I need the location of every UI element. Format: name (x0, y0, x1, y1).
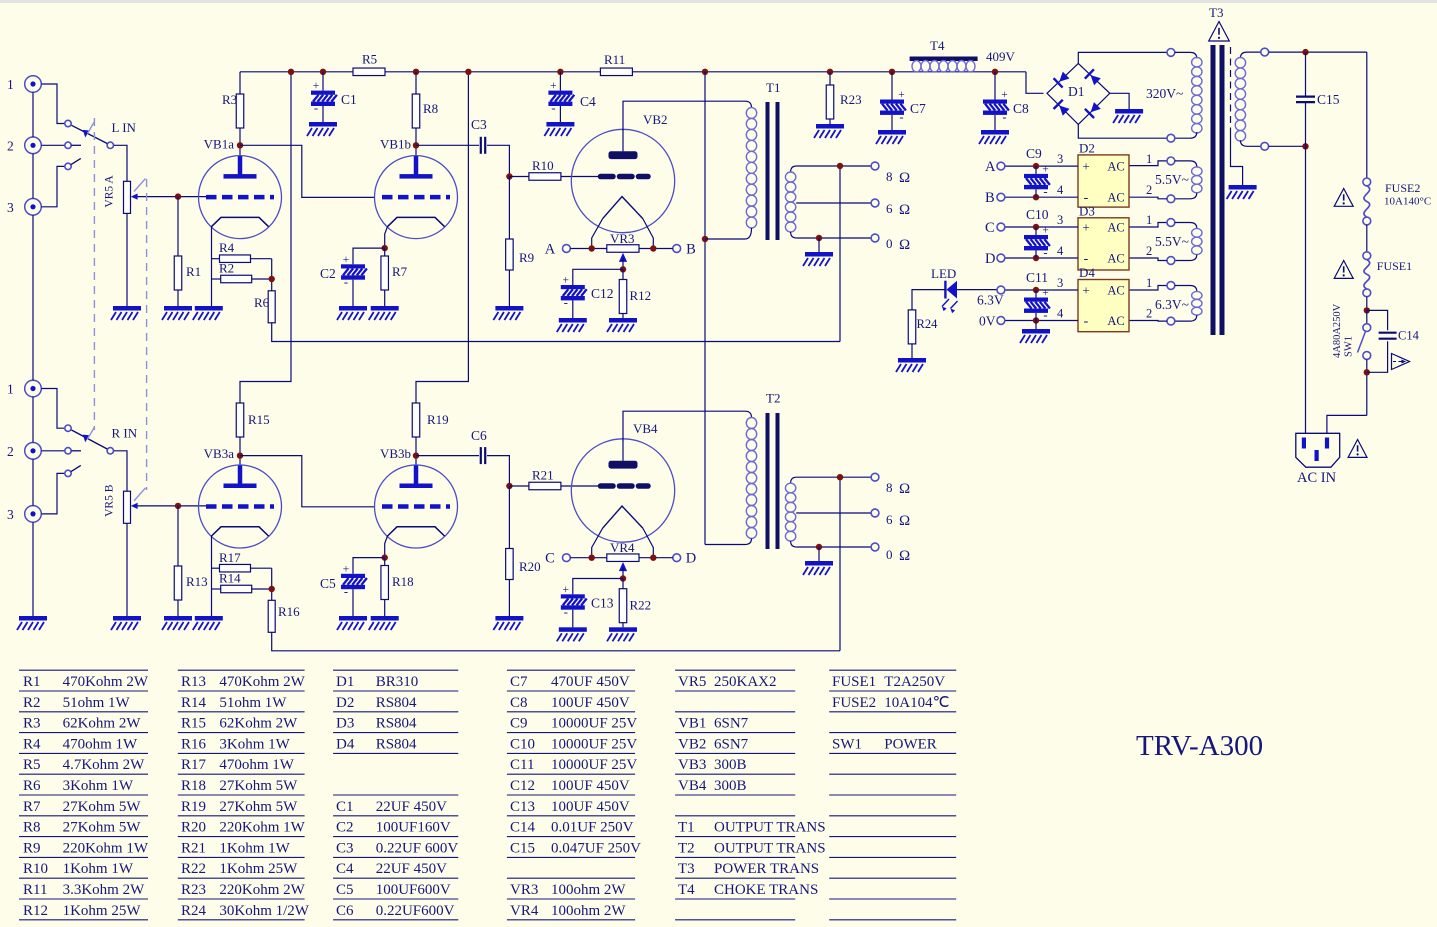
svg-text:C9: C9 (510, 716, 528, 732)
svg-text:10A104℃: 10A104℃ (884, 695, 949, 711)
svg-text:T3: T3 (1209, 5, 1223, 20)
svg-text:R11: R11 (23, 882, 47, 898)
svg-text:470ohm 1W: 470ohm 1W (219, 757, 294, 773)
svg-text:AC: AC (1107, 160, 1124, 174)
svg-text:-: - (551, 101, 555, 115)
svg-text:+: + (1082, 220, 1089, 235)
svg-text:1Kohm 25W: 1Kohm 25W (63, 903, 142, 919)
svg-text:-: - (1002, 110, 1006, 124)
svg-text:6: 6 (886, 512, 893, 527)
svg-text:VR5 B: VR5 B (104, 484, 116, 517)
svg-text:C10: C10 (510, 736, 535, 752)
svg-text:D1: D1 (1068, 84, 1085, 99)
svg-text:51ohm 1W: 51ohm 1W (63, 695, 131, 711)
svg-text:-: - (1043, 184, 1047, 198)
svg-text:1: 1 (1146, 213, 1152, 227)
svg-text:R21: R21 (181, 840, 206, 856)
svg-text:R17: R17 (181, 757, 207, 773)
svg-text:R15: R15 (248, 412, 270, 427)
svg-text:27Kohm 5W: 27Kohm 5W (63, 820, 142, 836)
svg-text:1Kohm 25W: 1Kohm 25W (219, 861, 298, 877)
svg-text:D3: D3 (1079, 203, 1095, 218)
svg-text:C2: C2 (320, 266, 336, 281)
svg-text:D1: D1 (336, 674, 354, 690)
svg-text:C15: C15 (510, 840, 535, 856)
svg-text:27Kohm 5W: 27Kohm 5W (63, 799, 142, 815)
svg-text:2: 2 (7, 138, 14, 153)
svg-text:AC: AC (1107, 252, 1124, 266)
svg-text:R8: R8 (423, 101, 438, 116)
svg-text:T4: T4 (930, 38, 945, 53)
svg-text:470Kohm 2W: 470Kohm 2W (63, 674, 149, 690)
svg-text:Ω: Ω (899, 237, 910, 253)
svg-text:-: - (344, 275, 348, 289)
svg-text:+: + (313, 80, 320, 92)
svg-text:R2: R2 (219, 261, 234, 276)
svg-text:3: 3 (7, 200, 14, 215)
svg-text:1: 1 (7, 382, 14, 397)
svg-text:+: + (343, 563, 350, 575)
svg-text:0.01UF 250V: 0.01UF 250V (551, 820, 634, 836)
svg-text:R4: R4 (23, 736, 41, 752)
svg-text:220Kohm 2W: 220Kohm 2W (219, 882, 305, 898)
svg-text:409V: 409V (986, 49, 1016, 64)
svg-text:C7: C7 (510, 674, 528, 690)
svg-text:R13: R13 (186, 574, 208, 589)
svg-text:AC: AC (1107, 191, 1124, 205)
svg-text:R9: R9 (519, 250, 534, 265)
svg-text:T2: T2 (766, 391, 780, 406)
svg-text:C2: C2 (336, 820, 354, 836)
svg-text:SW1: SW1 (832, 736, 862, 752)
svg-text:R22: R22 (630, 598, 652, 613)
svg-text:4: 4 (1057, 183, 1064, 197)
svg-text:D4: D4 (1079, 265, 1095, 280)
svg-text:R20: R20 (519, 559, 541, 574)
svg-text:27Kohm 5W: 27Kohm 5W (219, 778, 298, 794)
svg-text:C15: C15 (1317, 92, 1340, 107)
svg-text:Ω: Ω (899, 481, 910, 497)
svg-text:C6: C6 (471, 428, 487, 443)
svg-text:R13: R13 (181, 674, 206, 690)
svg-text:LED: LED (931, 266, 956, 281)
svg-text:VR5 A: VR5 A (104, 175, 116, 208)
svg-text:1: 1 (7, 77, 14, 92)
svg-text:FUSE1: FUSE1 (832, 674, 876, 690)
svg-text:R20: R20 (181, 820, 206, 836)
svg-text:+: + (898, 89, 905, 101)
svg-text:100UF 450V: 100UF 450V (551, 799, 630, 815)
svg-text:10A140°C: 10A140°C (1384, 196, 1431, 208)
svg-text:6SN7: 6SN7 (714, 716, 749, 732)
svg-text:-: - (1043, 308, 1047, 322)
svg-text:R1: R1 (23, 674, 41, 690)
svg-text:0.22UF 600V: 0.22UF 600V (376, 840, 459, 856)
svg-text:VB4: VB4 (678, 778, 707, 794)
svg-text:0.047UF 250V: 0.047UF 250V (551, 840, 641, 856)
svg-text:+: + (563, 275, 570, 287)
svg-text:3: 3 (1057, 152, 1063, 166)
svg-text:250KAX2: 250KAX2 (714, 674, 777, 690)
svg-text:R4: R4 (219, 240, 235, 255)
svg-text:R21: R21 (532, 468, 554, 483)
svg-text:C5: C5 (336, 882, 354, 898)
svg-text:27Kohm 5W: 27Kohm 5W (219, 799, 298, 815)
svg-text:-: - (564, 605, 568, 619)
svg-text:R6: R6 (254, 295, 270, 310)
svg-text:62Kohm 2W: 62Kohm 2W (63, 716, 142, 732)
svg-text:R7: R7 (23, 799, 41, 815)
svg-text:+: + (1042, 287, 1049, 299)
svg-text:R10: R10 (23, 861, 48, 877)
svg-text:C: C (985, 220, 995, 236)
svg-text:R16: R16 (278, 604, 300, 619)
svg-text:R5: R5 (23, 757, 41, 773)
svg-text:0: 0 (886, 236, 893, 251)
svg-text:VB2: VB2 (643, 112, 668, 127)
svg-text:R7: R7 (392, 264, 408, 279)
svg-text:62Kohm 2W: 62Kohm 2W (219, 716, 298, 732)
svg-text:C1: C1 (336, 799, 354, 815)
svg-text:3: 3 (7, 507, 14, 522)
svg-text:B: B (985, 190, 995, 206)
svg-text:VR4: VR4 (610, 540, 635, 555)
svg-text:-: - (314, 101, 318, 115)
svg-text:470ohm 1W: 470ohm 1W (63, 736, 138, 752)
svg-text:C8: C8 (1013, 101, 1029, 116)
svg-text:C6: C6 (336, 903, 354, 919)
svg-text:Ω: Ω (899, 513, 910, 529)
svg-text:R3: R3 (222, 92, 237, 107)
svg-text:3Kohm 1W: 3Kohm 1W (219, 736, 290, 752)
svg-text:C11: C11 (510, 757, 534, 773)
svg-text:R14: R14 (219, 571, 241, 586)
svg-text:BR310: BR310 (376, 674, 419, 690)
svg-text:1Kohm 1W: 1Kohm 1W (63, 861, 134, 877)
svg-text:Ω: Ω (899, 170, 910, 186)
svg-text:R6: R6 (23, 778, 41, 794)
svg-text:T2A250V: T2A250V (884, 674, 945, 690)
svg-text:VB1: VB1 (678, 716, 706, 732)
svg-text:D2: D2 (1079, 140, 1095, 155)
svg-text:T1: T1 (766, 80, 780, 95)
svg-text:R3: R3 (23, 716, 41, 732)
svg-text:OUTPUT TRANS: OUTPUT TRANS (714, 840, 826, 856)
svg-text:+: + (1001, 89, 1008, 101)
svg-text:C: C (545, 551, 555, 567)
svg-text:C4: C4 (336, 861, 354, 877)
svg-text:2: 2 (1146, 307, 1152, 321)
svg-text:L IN: L IN (112, 120, 137, 135)
svg-text:220Kohm 1W: 220Kohm 1W (219, 820, 305, 836)
svg-text:C13: C13 (510, 799, 535, 815)
svg-text:VR5: VR5 (678, 674, 706, 690)
svg-text:CHOKE TRANS: CHOKE TRANS (714, 882, 818, 898)
svg-text:A: A (545, 242, 556, 258)
svg-text:D: D (686, 551, 696, 567)
svg-text:-: - (1043, 246, 1047, 260)
svg-text:1: 1 (1146, 276, 1152, 290)
svg-text:C11: C11 (1026, 270, 1048, 285)
svg-text:R18: R18 (181, 778, 206, 794)
svg-text:VR4: VR4 (510, 903, 539, 919)
svg-text:4: 4 (1057, 307, 1064, 321)
svg-text:R23: R23 (181, 882, 206, 898)
svg-text:300B: 300B (714, 757, 747, 773)
svg-text:RS804: RS804 (376, 695, 417, 711)
svg-text:+: + (1042, 163, 1049, 175)
svg-text:R22: R22 (181, 861, 206, 877)
svg-text:R IN: R IN (112, 425, 138, 440)
svg-text:100UF 450V: 100UF 450V (551, 695, 630, 711)
svg-text:R8: R8 (23, 820, 41, 836)
svg-text:R10: R10 (532, 158, 554, 173)
svg-text:R23: R23 (840, 92, 862, 107)
svg-text:22UF 450V: 22UF 450V (376, 799, 447, 815)
svg-text:2: 2 (1146, 244, 1152, 258)
svg-text:320V~: 320V~ (1146, 86, 1183, 101)
svg-text:C12: C12 (510, 778, 535, 794)
svg-text:AC: AC (1107, 284, 1124, 298)
svg-text:RS804: RS804 (376, 736, 417, 752)
svg-text:C10: C10 (1026, 207, 1049, 222)
svg-text:T3: T3 (678, 861, 695, 877)
svg-text:+: + (550, 80, 557, 92)
svg-text:C3: C3 (471, 117, 487, 132)
svg-text:FUSE2: FUSE2 (832, 695, 876, 711)
svg-text:4: 4 (1057, 244, 1064, 258)
svg-text:SW1: SW1 (1344, 336, 1355, 357)
svg-text:T4: T4 (678, 882, 695, 898)
svg-text:6: 6 (886, 201, 893, 216)
svg-text:C12: C12 (591, 286, 614, 301)
svg-text:+: + (1082, 283, 1089, 298)
svg-text:C14: C14 (510, 820, 536, 836)
svg-text:8: 8 (886, 480, 893, 495)
svg-text:R12: R12 (630, 288, 652, 303)
svg-text:R19: R19 (181, 799, 206, 815)
svg-text:10000UF 25V: 10000UF 25V (551, 716, 637, 732)
svg-text:R1: R1 (186, 264, 201, 279)
svg-text:R5: R5 (362, 52, 377, 67)
svg-text:R9: R9 (23, 840, 41, 856)
svg-text:3Kohm 1W: 3Kohm 1W (63, 778, 134, 794)
svg-text:100ohm 2W: 100ohm 2W (551, 903, 626, 919)
svg-text:VB4: VB4 (633, 421, 658, 436)
svg-text:Ω: Ω (899, 202, 910, 218)
svg-text:POWER: POWER (884, 736, 937, 752)
svg-text:6.3V~: 6.3V~ (1155, 297, 1189, 312)
svg-text:22UF 450V: 22UF 450V (376, 861, 447, 877)
svg-text:R2: R2 (23, 695, 41, 711)
svg-text:C9: C9 (1026, 146, 1042, 161)
svg-text:D4: D4 (336, 736, 355, 752)
svg-text:3: 3 (1057, 213, 1063, 227)
svg-text:T2: T2 (678, 840, 695, 856)
svg-text:TRV-A300: TRV-A300 (1136, 730, 1263, 762)
svg-text:300B: 300B (714, 778, 747, 794)
svg-text:-: - (1084, 314, 1089, 329)
svg-text:VB3: VB3 (678, 757, 706, 773)
svg-text:VB1b: VB1b (380, 137, 411, 152)
svg-text:R24: R24 (181, 903, 207, 919)
svg-text:RS804: RS804 (376, 716, 417, 732)
svg-text:VB1a: VB1a (204, 137, 235, 152)
svg-text:+: + (1082, 159, 1089, 174)
svg-text:+: + (563, 584, 570, 596)
svg-text:R17: R17 (219, 550, 241, 565)
svg-text:AC: AC (1107, 221, 1124, 235)
svg-text:OUTPUT TRANS: OUTPUT TRANS (714, 820, 826, 836)
svg-text:D: D (985, 251, 995, 267)
svg-text:4A80A250V: 4A80A250V (1332, 303, 1343, 358)
svg-text:C8: C8 (510, 695, 528, 711)
svg-text:2: 2 (7, 444, 14, 459)
svg-text:0: 0 (886, 547, 893, 562)
svg-text:+: + (343, 254, 350, 266)
svg-text:Ω: Ω (899, 548, 910, 564)
svg-text:C3: C3 (336, 840, 354, 856)
svg-text:R14: R14 (181, 695, 207, 711)
svg-text:VB3a: VB3a (204, 446, 235, 461)
svg-text:10000UF 25V: 10000UF 25V (551, 736, 637, 752)
svg-text:8: 8 (886, 169, 893, 184)
svg-text:-: - (899, 110, 903, 124)
svg-text:100UF 450V: 100UF 450V (551, 778, 630, 794)
svg-text:VB3b: VB3b (380, 446, 411, 461)
svg-text:100UF160V: 100UF160V (376, 820, 451, 836)
svg-text:+: + (1042, 225, 1049, 237)
svg-text:R12: R12 (23, 903, 48, 919)
svg-text:VR3: VR3 (610, 231, 635, 246)
svg-text:3.3Kohm 2W: 3.3Kohm 2W (63, 882, 146, 898)
svg-text:C14: C14 (1398, 329, 1420, 343)
svg-text:VR3: VR3 (510, 882, 538, 898)
svg-text:C7: C7 (910, 101, 926, 116)
svg-text:6.3V: 6.3V (977, 293, 1004, 308)
svg-text:C13: C13 (591, 596, 614, 611)
svg-text:30Kohm 1/2W: 30Kohm 1/2W (219, 903, 309, 919)
svg-text:51ohm 1W: 51ohm 1W (219, 695, 287, 711)
svg-text:2: 2 (1146, 183, 1152, 197)
svg-text:470Kohm 2W: 470Kohm 2W (219, 674, 305, 690)
svg-text:A: A (985, 159, 996, 175)
svg-text:R18: R18 (392, 574, 414, 589)
svg-text:AC IN: AC IN (1297, 470, 1337, 486)
svg-text:1Kohm 1W: 1Kohm 1W (219, 840, 290, 856)
svg-text:100ohm 2W: 100ohm 2W (551, 882, 626, 898)
svg-text:3: 3 (1057, 276, 1063, 290)
svg-text:C1: C1 (341, 92, 357, 107)
svg-text:R15: R15 (181, 716, 206, 732)
svg-text:FUSE1: FUSE1 (1377, 259, 1412, 273)
svg-text:B: B (686, 242, 696, 258)
svg-text:-: - (344, 584, 348, 598)
svg-text:220Kohm 1W: 220Kohm 1W (63, 840, 149, 856)
svg-text:10000UF 25V: 10000UF 25V (551, 757, 637, 773)
svg-text:6SN7: 6SN7 (714, 736, 749, 752)
svg-text:C5: C5 (320, 576, 336, 591)
svg-text:1: 1 (1146, 152, 1152, 166)
svg-text:470UF 450V: 470UF 450V (551, 674, 630, 690)
svg-text:POWER TRANS: POWER TRANS (714, 861, 819, 877)
svg-text:R16: R16 (181, 736, 207, 752)
svg-text:R19: R19 (427, 412, 449, 427)
svg-text:0.22UF600V: 0.22UF600V (376, 903, 455, 919)
svg-text:C4: C4 (580, 94, 596, 109)
svg-text:100UF600V: 100UF600V (376, 882, 451, 898)
svg-text:4.7Kohm 2W: 4.7Kohm 2W (63, 757, 146, 773)
svg-text:FUSE2: FUSE2 (1385, 181, 1420, 195)
svg-text:R24: R24 (917, 317, 939, 331)
svg-text:5.5V~: 5.5V~ (1155, 172, 1189, 187)
svg-text:0V: 0V (979, 314, 996, 329)
svg-text:-: - (564, 296, 568, 310)
svg-text:AC: AC (1107, 314, 1124, 328)
svg-text:5.5V~: 5.5V~ (1155, 234, 1189, 249)
svg-text:VB2: VB2 (678, 736, 706, 752)
svg-text:D2: D2 (336, 695, 354, 711)
svg-text:T1: T1 (678, 820, 695, 836)
svg-text:R11: R11 (604, 52, 625, 67)
svg-text:D3: D3 (336, 716, 354, 732)
